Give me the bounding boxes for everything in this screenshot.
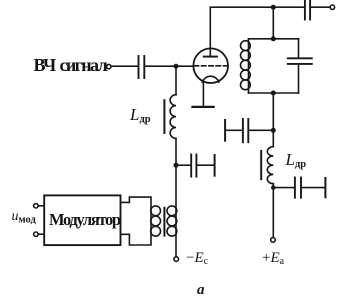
transformer T1 secondary winding loops (167, 206, 177, 236)
label: +Ea (262, 250, 284, 267)
wire: grid junction down to bias line (175, 66, 177, 95)
wire: upper terminal stub (38, 205, 44, 207)
wire: lower terminal stub (38, 233, 44, 235)
wire: input terminal to C1 (112, 65, 138, 67)
wire: top anode rail (210, 6, 304, 8)
inductor L3 grid choke Lдр (170, 95, 176, 139)
capacitor C3 anode blocking plates (243, 119, 248, 142)
wire: C2 to output terminal (311, 6, 330, 8)
wire: cathode lead (202, 83, 204, 106)
node: anode feed / C3 junction (271, 128, 276, 133)
core bar of choke L2 (260, 151, 262, 179)
wire: transformer T1 primary outline (121, 197, 152, 245)
wire: tank top rail (249, 38, 299, 40)
capacitor C6 tank capacitor (288, 39, 312, 93)
label: Lдр grid choke (130, 105, 151, 125)
wire: C4 to ground bar (302, 187, 325, 189)
ground bar left of C3 (224, 120, 226, 141)
wire: choke L3 down through C5 junction to -Ec terminal (175, 138, 177, 256)
tube V1 envelope (193, 48, 228, 83)
ground bar right of C5 (214, 155, 216, 176)
wire: C3 to anode feed line (249, 129, 273, 131)
node: top rail junction (271, 5, 276, 10)
terminal: RF input (ВЧ сигнал) (107, 64, 111, 68)
label: -Ec (186, 250, 208, 267)
wire: tank bottom down to C3 junction (272, 93, 274, 130)
wire: C5 to ground bar (197, 164, 213, 166)
wire: tank bottom rail (249, 92, 299, 94)
node: tank top junction (271, 36, 276, 41)
capacitor C1 grid coupling plates (139, 56, 145, 78)
tube V1 grid (dashed) (194, 65, 226, 67)
terminal: modulator input upper (34, 204, 38, 208)
node: grid junction (174, 64, 179, 69)
terminal: +Ea supply (271, 238, 276, 243)
tube V1 cathode arc (202, 76, 219, 82)
label: ВЧ сигнал (34, 55, 107, 76)
wire: choke L2 down to +Ea terminal (272, 184, 274, 238)
capacitor C5 bias bypass plates (191, 155, 196, 177)
ground bar right of C4 (324, 178, 326, 197)
tube V1 anode lead (209, 7, 211, 56)
label: Модулятор (49, 210, 120, 230)
node: anode supply / C4 junction (271, 185, 276, 190)
terminal: modulator input lower (34, 232, 38, 236)
ground (chassis bar) (193, 106, 214, 108)
label: u мод (12, 209, 36, 225)
node: bias / C5 junction (174, 163, 179, 168)
capacitor C2 output coupling plates (305, 0, 310, 20)
inductor L2 anode choke Lдр (267, 147, 273, 184)
terminal: RF output (330, 5, 334, 9)
node: tank bottom junction (271, 91, 276, 96)
capacitor C4 supply bypass plates (295, 178, 301, 198)
label: Lдр anode choke (286, 150, 307, 170)
wire: C1 to grid junction to tube grid (145, 65, 193, 67)
wire: junction down to choke L2 (272, 130, 274, 146)
wire: junction to C4 (273, 187, 294, 189)
core bar of choke L3 (163, 100, 165, 133)
transformer T1 core bar (163, 208, 165, 236)
inductor L1 tank coil (241, 39, 251, 93)
label: caption a (197, 282, 205, 299)
wire: ground bar to C3 (225, 129, 242, 131)
terminal: -Ec supply (174, 257, 179, 262)
wire: top rail down to tank (272, 7, 274, 39)
modulator box (44, 195, 120, 245)
tube V1 anode plate bar (204, 56, 217, 58)
wire: junction to C5 (176, 164, 190, 166)
transformer T1 primary winding loops (151, 206, 161, 236)
